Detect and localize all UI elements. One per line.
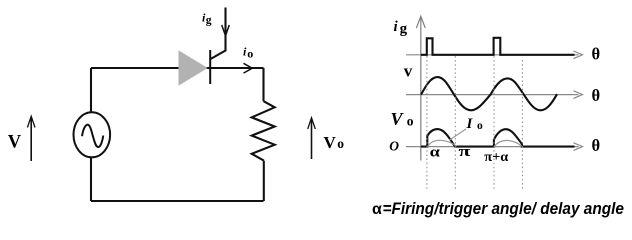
ig plot horizontal axis theta (gray with chevron arrow) [406,51,583,59]
dotted guide line 3 (2pi+alpha) [493,56,495,190]
AC source V1 (ellipse) [74,112,111,157]
label Vo (output voltage, circuit) [324,133,345,152]
svg-text:V: V [391,109,405,129]
V arrow (up) [27,116,35,161]
wire left vertical (top corner down to source) [90,68,92,113]
svg-text:o: o [337,136,344,151]
wire right vertical (resistor to bottom corner) [263,161,265,201]
AC source sine symbol [82,125,103,147]
svg-text:α: α [430,145,441,161]
resistor R load (zigzag) [252,101,275,160]
svg-text:π: π [459,144,472,160]
svg-text:g: g [206,14,212,26]
wire top (anode side, left corner to SCR and SCR to right corner) [91,67,264,69]
dotted guide line 4 (3pi) [521,60,523,190]
svg-text:g: g [400,21,408,37]
wire bottom [91,200,264,202]
wire left vertical (source down to bottom corner) [90,157,92,201]
svg-text:V: V [8,133,22,153]
svg-text:v: v [404,62,413,81]
dotted guide line 2 (pi) [454,56,456,190]
svg-text:o: o [477,120,483,132]
label ig (gate current) [202,11,212,27]
wire right vertical (top corner down to resistor) [262,68,264,101]
Io waveform hump 2 (gray load current) [494,140,522,146]
Vo waveform (two rectified humps) [421,129,575,147]
label pi+alpha [484,149,508,164]
label ig (plot) [394,19,408,37]
svg-text:=Firing/trigger angle/ delay a: =Firing/trigger angle/ delay angle [383,200,625,218]
thyristor gate lead (diagonal + vertical) [211,8,226,60]
caption: alpha = Firing/trigger angle/ delay angle [372,200,624,218]
svg-text:V: V [324,133,337,152]
Vo arrow (up) [308,118,316,159]
Io waveform hump 1 (gray load current) [428,140,457,146]
svg-text:i: i [394,19,399,35]
label theta (plot 2) [592,86,601,105]
svg-text:O: O [389,139,399,154]
v waveform (sine, 2 cycles) [421,77,557,110]
gate current arrowhead (pointing down) [222,25,230,36]
io arrowhead on wire (pointing right) [244,63,253,73]
label io (output current) [243,45,253,61]
label pi [459,144,472,160]
label Vo (plot) [391,109,414,129]
v plot horizontal axis theta (gray with chevron arrow) [406,91,583,99]
label theta (plot 1) [592,45,601,64]
label Io with pointer line [450,116,484,140]
label theta (plot 3) [592,136,601,155]
dotted guide line 1 (alpha) [426,56,428,190]
label O (origin) [389,139,399,154]
svg-text:θ: θ [592,136,601,155]
label alpha (firing angle) [430,145,441,161]
svg-text:θ: θ [592,45,601,64]
thyristor SCR cathode bar [209,50,211,84]
label v (plot) [404,62,413,81]
ig waveform (two gate pulses) [421,38,575,55]
Vo plot horizontal axis theta (gray with chevron arrow) [406,143,583,151]
svg-text:I: I [466,116,474,132]
svg-text:o: o [247,46,253,60]
thyristor SCR triangle (anode) [179,50,208,86]
svg-text:π+α: π+α [484,149,508,164]
svg-text:o: o [407,113,414,128]
svg-text:θ: θ [592,86,601,105]
waveform vertical axis (shared, with up arrow) [416,16,425,160]
label V (source voltage) [8,133,22,153]
svg-text:α: α [372,201,382,218]
